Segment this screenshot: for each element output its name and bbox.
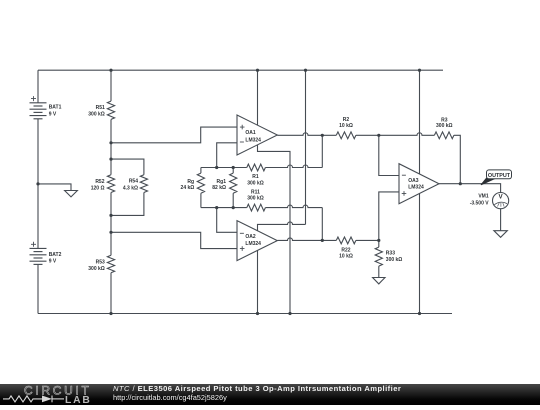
svg-text:10 kΩ: 10 kΩ	[339, 254, 353, 260]
svg-text:OA3: OA3	[408, 178, 419, 184]
svg-text:R52: R52	[95, 179, 104, 185]
svg-text:LAB: LAB	[65, 395, 92, 405]
svg-text:Rg: Rg	[187, 179, 194, 185]
svg-text:http://circuitlab.com/cg4fa52j: http://circuitlab.com/cg4fa52j5826y	[113, 394, 227, 403]
svg-text:300 kΩ: 300 kΩ	[88, 111, 105, 117]
svg-text:24 kΩ: 24 kΩ	[181, 185, 195, 191]
svg-text:R54: R54	[129, 179, 138, 185]
svg-text:VM1: VM1	[478, 194, 489, 200]
svg-text:LM324: LM324	[408, 185, 424, 191]
svg-text:OUTPUT: OUTPUT	[488, 173, 511, 179]
svg-text:LM324: LM324	[245, 241, 261, 247]
svg-text:R1: R1	[252, 174, 259, 180]
svg-text:R22: R22	[341, 248, 350, 254]
svg-text:9 V: 9 V	[49, 259, 57, 265]
svg-text:-3.500 V: -3.500 V	[470, 200, 490, 206]
svg-text:82 kΩ: 82 kΩ	[212, 185, 226, 191]
svg-text:BAT2: BAT2	[49, 252, 62, 258]
svg-text:BAT1: BAT1	[49, 105, 62, 111]
svg-text:OA2: OA2	[245, 234, 256, 240]
svg-text:NTC / ELE3506 Airspeed Pitot t: NTC / ELE3506 Airspeed Pitot tube 3 Op-A…	[113, 384, 401, 393]
svg-text:OA1: OA1	[245, 130, 256, 136]
svg-text:9 V: 9 V	[49, 112, 57, 118]
svg-text:10 kΩ: 10 kΩ	[339, 123, 353, 129]
svg-text:300 kΩ: 300 kΩ	[247, 195, 264, 201]
svg-text:120 Ω: 120 Ω	[91, 186, 105, 192]
svg-text:300 kΩ: 300 kΩ	[436, 123, 453, 129]
svg-text:Rg1: Rg1	[217, 179, 227, 185]
svg-text:LM324: LM324	[245, 137, 261, 143]
svg-text:R53: R53	[96, 260, 105, 266]
svg-text:300 kΩ: 300 kΩ	[386, 257, 403, 263]
svg-text:4.3 kΩ: 4.3 kΩ	[123, 185, 138, 191]
svg-text:300 kΩ: 300 kΩ	[88, 266, 105, 272]
svg-text:R33: R33	[386, 250, 395, 256]
svg-text:R51: R51	[96, 105, 105, 111]
svg-text:300 kΩ: 300 kΩ	[247, 181, 264, 187]
